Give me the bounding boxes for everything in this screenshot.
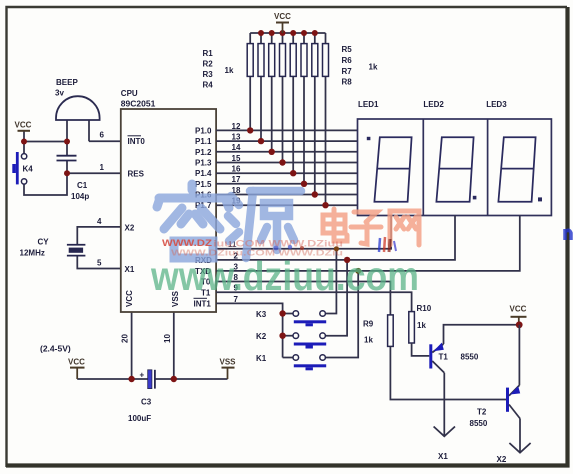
pin numbers 12-19 (232, 122, 241, 206)
LED3 seven-segment digit (498, 137, 535, 201)
svg-text:P1.2: P1.2 (195, 148, 212, 157)
svg-text:T1: T1 (439, 353, 449, 362)
svg-text:P1.4: P1.4 (195, 169, 212, 178)
power VCC symbol top resistors (274, 12, 291, 33)
watermark blue char YUAN (228, 191, 301, 258)
svg-text:8550: 8550 (461, 353, 479, 362)
svg-text:R8: R8 (342, 78, 353, 87)
svg-text:INT0: INT0 (128, 137, 146, 146)
svg-text:P1.5: P1.5 (195, 180, 212, 189)
wire T1 collector down to X1 (443, 373, 445, 436)
svg-text:6: 6 (100, 131, 105, 140)
LED1 decimal dot top-left (367, 137, 371, 140)
svg-text:P1.3: P1.3 (195, 159, 212, 168)
svg-text:VCC: VCC (15, 121, 32, 130)
capacitor C1 plates (57, 156, 77, 161)
junction dot VCC right (516, 321, 523, 328)
svg-text:15: 15 (232, 154, 241, 163)
wire TXD pin 3 line to LED3 common (216, 216, 520, 271)
svg-text:(2.4-5V): (2.4-5V) (40, 344, 71, 354)
svg-text:P1.0: P1.0 (195, 126, 212, 135)
wire bottom rail right of C3 (155, 378, 228, 380)
svg-text:WWW.DZiuu.COM WWW.DZiu: WWW.DZiuu.COM WWW.DZiu (171, 248, 343, 258)
junction dot pin20 rail (128, 376, 134, 382)
wire speaker left leg (66, 120, 68, 142)
svg-text:K3: K3 (256, 310, 267, 319)
wire pin 10 down (173, 312, 175, 379)
LED2 decimal dot (473, 196, 477, 200)
wire INT1 pin 7 line to buttons column (216, 303, 283, 357)
svg-text:17: 17 (232, 175, 241, 184)
LED2 seven-segment digit (436, 137, 473, 201)
CPU P1 port pin labels (195, 126, 212, 210)
junction dot VCC/K4/speaker node (21, 139, 27, 145)
svg-text:1k: 1k (225, 66, 234, 75)
svg-text:VCC: VCC (274, 12, 291, 21)
op CPU box 89C2051 (121, 109, 216, 312)
resistor labels R1-R4 (203, 49, 234, 90)
svg-text:R1: R1 (203, 49, 214, 58)
svg-text:X1: X1 (125, 265, 135, 274)
pushbutton K1 (293, 355, 326, 371)
svg-text:R10: R10 (417, 304, 432, 313)
wire pin 20 down (131, 312, 133, 379)
wire T1 pin 9 line to R10 (216, 292, 412, 311)
wire VCC down to T2 emitter (518, 325, 520, 386)
watermark right-edge blue mark (565, 229, 571, 240)
watermark blue char RONG (157, 184, 229, 258)
svg-text:LED1: LED1 (358, 100, 379, 109)
watermark salmon char ZI (351, 212, 381, 244)
CPU pin label INT1 with overline (194, 298, 212, 308)
svg-text:104p: 104p (71, 192, 89, 201)
svg-text:BEEP: BEEP (56, 78, 78, 87)
svg-text:100uF: 100uF (128, 414, 151, 423)
svg-text:CPU: CPU (121, 89, 138, 98)
svg-text:X1: X1 (438, 452, 448, 461)
speaker BEEP dome (56, 96, 100, 120)
svg-text:K2: K2 (256, 332, 267, 341)
wires resistor leads vertical (250, 33, 325, 205)
svg-text:R4: R4 (203, 81, 214, 90)
wire X2 pin 4 to crystal top (77, 227, 121, 244)
svg-text:1: 1 (100, 163, 105, 172)
LED display outer box (358, 119, 552, 216)
wire RXD pin 2 line to LED2 common (216, 216, 455, 260)
svg-text:X2: X2 (497, 455, 507, 464)
crystal CY (67, 245, 86, 256)
arrow X1 (434, 427, 455, 437)
wire C1 top lead (66, 142, 68, 156)
svg-text:4: 4 (97, 217, 102, 226)
svg-text:CY: CY (38, 238, 50, 247)
arrow X2 (509, 443, 530, 453)
transistor T1 8550 (429, 343, 444, 373)
resistor R10 body (409, 312, 415, 343)
wire bottom rail left of C3 (77, 378, 148, 380)
pushbutton K2 (293, 333, 326, 349)
transistor T2 8550 (506, 385, 520, 418)
svg-text:14: 14 (232, 143, 241, 152)
resistors R1-R8 bodies (247, 44, 328, 77)
capacitor C3 electrolytic (140, 370, 155, 389)
wires P1.0-P1.7 to display (216, 130, 357, 205)
svg-text:1k: 1k (364, 336, 373, 345)
svg-text:3v: 3v (55, 89, 64, 98)
power VCC symbol bottom (68, 358, 85, 380)
wire K2 right contact up to RXD line (326, 260, 347, 336)
svg-text:12MHz: 12MHz (20, 249, 45, 258)
svg-text:R5: R5 (342, 45, 353, 54)
wire VCC node to speaker left leg (24, 141, 67, 143)
svg-text:T2: T2 (477, 408, 487, 417)
junction dots P1 lines diagonal (247, 127, 329, 208)
svg-text:R3: R3 (203, 70, 214, 79)
pushbutton K3 (293, 311, 326, 327)
svg-text:VCC: VCC (510, 305, 527, 314)
svg-text:10: 10 (163, 334, 172, 343)
LED1 seven-segment digit (374, 137, 411, 201)
svg-text:VCC: VCC (68, 358, 85, 367)
svg-text:1k: 1k (417, 321, 426, 330)
wire T2 collector down to X2 (519, 419, 521, 453)
LED display dividers (422, 119, 424, 216)
svg-text:+: + (140, 371, 145, 380)
wire T1 emitter to VCC (444, 325, 520, 344)
wire speaker right leg (88, 120, 90, 141)
wire colors group (24, 120, 228, 379)
pushbutton K4 (12, 152, 26, 184)
wire K3 right contact up to pin11 line (326, 249, 337, 314)
svg-text:16: 16 (232, 165, 241, 174)
svg-text:R9: R9 (363, 320, 374, 329)
wire R9 bottom to T2 base (390, 346, 506, 399)
svg-text:LED3: LED3 (486, 100, 507, 109)
wire VCC stem to K4 top contact (23, 131, 25, 154)
wire P3.7 pin 11 line to LED1 common (216, 216, 391, 249)
watermark salmon char WANG (390, 211, 419, 245)
wire C1 bottom lead (66, 161, 68, 173)
wire K4 bottom contact to RES node (24, 173, 67, 195)
svg-text:K1: K1 (256, 354, 267, 363)
wire RES line to pin 1 (67, 172, 121, 174)
CPU pin label INT0 with overline (128, 136, 146, 146)
power VSS symbol bottom (220, 358, 237, 380)
wire X1 pin 5 to crystal bottom (77, 257, 121, 269)
LED3 decimal dot (538, 197, 542, 201)
junction dot speaker leg / C1 top (64, 139, 70, 145)
junction dot INT1/K2 left (279, 333, 285, 339)
wire K3 left lead (283, 313, 293, 315)
power VCC symbol right (510, 305, 527, 325)
resistor labels R5-R8 (342, 45, 378, 87)
svg-text:VSS: VSS (220, 358, 237, 367)
svg-text:12: 12 (232, 122, 241, 131)
junction dot TXD/K1 (355, 268, 361, 274)
wire K1 left lead (283, 357, 293, 359)
svg-text:RES: RES (128, 170, 145, 179)
watermark scribble marks (274, 237, 396, 252)
wire R10 bottom to T1 base (412, 343, 430, 356)
junction dot INT1/K3 left (279, 310, 285, 316)
wire T0 pin 8 line to R9 (216, 282, 390, 315)
power VCC symbol top-left (15, 121, 32, 131)
svg-text:INT1: INT1 (194, 299, 212, 308)
watermark salmon char DIAN (323, 209, 347, 241)
wire K1 right contact up to TXD line (326, 271, 359, 358)
junction dot RXD/K2 (344, 257, 350, 263)
svg-text:5: 5 (97, 259, 102, 268)
junction dot pin11/K3 (334, 246, 339, 251)
svg-text:C3: C3 (141, 398, 152, 407)
svg-text:K4: K4 (23, 165, 34, 174)
wire K2 left lead (283, 335, 293, 337)
svg-text:X2: X2 (125, 224, 135, 233)
junction dot pin10 rail (171, 376, 177, 382)
svg-text:C1: C1 (77, 181, 88, 190)
svg-text:1k: 1k (369, 63, 378, 72)
svg-text:www.dziuu.com: www.dziuu.com (150, 253, 419, 299)
svg-text:R7: R7 (342, 67, 353, 76)
svg-text:R6: R6 (342, 56, 353, 65)
svg-text:VCC: VCC (125, 290, 134, 307)
resistor R9 body (388, 315, 394, 347)
svg-text:20: 20 (121, 334, 130, 343)
svg-text:R2: R2 (203, 60, 214, 69)
svg-text:89C2051: 89C2051 (121, 99, 156, 109)
junction dot RES node (64, 170, 70, 176)
wire speaker right leg to INT0 pin 6 (89, 140, 121, 142)
svg-text:8550: 8550 (470, 419, 488, 428)
svg-text:13: 13 (232, 133, 241, 142)
junction dots resistor rail (258, 30, 318, 36)
svg-text:P1.1: P1.1 (195, 137, 212, 146)
svg-text:LED2: LED2 (423, 100, 444, 109)
